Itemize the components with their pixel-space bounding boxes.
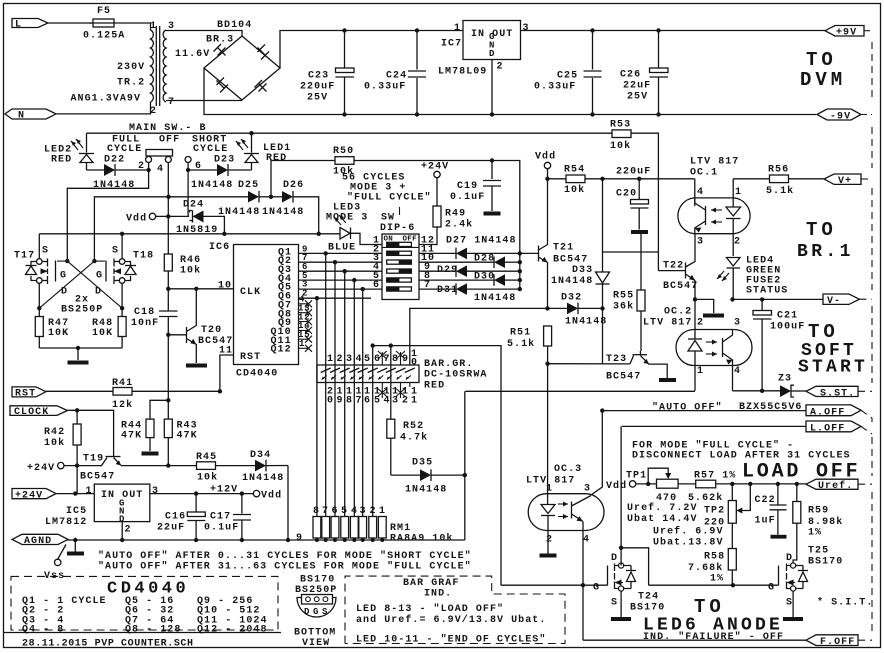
- svg-text:T22: T22: [663, 261, 684, 272]
- svg-text:C26: C26: [620, 70, 641, 81]
- transformer TR.2: [71, 21, 211, 117]
- svg-text:5.1k: 5.1k: [507, 338, 535, 350]
- svg-text:TO: TO: [806, 49, 837, 71]
- svg-text:OC.2: OC.2: [664, 307, 692, 318]
- wire T22 base feed: [603, 251, 659, 253]
- svg-text:C18: C18: [134, 307, 155, 318]
- svg-text:22uF: 22uF: [157, 523, 185, 534]
- diode D26 1N4148: [262, 180, 321, 236]
- package BS170 BS250P bottom view: [294, 575, 337, 650]
- svg-text:1N4148: 1N4148: [93, 180, 135, 191]
- svg-text:100uF: 100uF: [770, 322, 805, 333]
- diode D32 1N4148: [410, 293, 608, 328]
- svg-text:TO: TO: [806, 219, 837, 241]
- svg-text:F.OFF: F.OFF: [820, 637, 855, 648]
- resistor R44 47K: [121, 400, 168, 455]
- wire Vdd rail to T22 net: [602, 179, 604, 252]
- capacitor C17 0.1uF: [204, 491, 251, 542]
- resistor R54 10k: [545, 165, 695, 197]
- svg-text:2.4k: 2.4k: [445, 219, 473, 231]
- regulator IC7 LM78L09: [438, 21, 530, 78]
- svg-text:"FULL CYCLE": "FULL CYCLE": [347, 192, 432, 204]
- svg-text:BS170: BS170: [300, 575, 335, 586]
- wire F.OFF row: [583, 639, 806, 641]
- capacitor C20: [616, 177, 649, 234]
- transistor T19 BC547: [64, 454, 197, 483]
- svg-text:0.125A: 0.125A: [83, 31, 125, 42]
- trimmer TP2 220: [704, 482, 753, 529]
- flag F.OFF: [806, 635, 858, 648]
- ground bar Vss: [73, 538, 77, 542]
- svg-text:6: 6: [374, 354, 381, 365]
- wire R51 to OC3 pin1: [547, 364, 549, 496]
- svg-text:S: S: [786, 598, 793, 609]
- wire Q2 to DIP pin3: [299, 261, 383, 263]
- ground bar T24 source: [620, 591, 622, 617]
- wire D34 riser to ground rail: [287, 466, 289, 541]
- svg-text:10k: 10k: [333, 166, 354, 178]
- svg-text:R42: R42: [44, 427, 65, 438]
- diode D27 1N4148: [419, 236, 539, 260]
- svg-text:2: 2: [697, 318, 704, 329]
- svg-text:9: 9: [402, 354, 409, 365]
- svg-text:C20: C20: [616, 189, 637, 200]
- svg-text:BLUE: BLUE: [328, 243, 356, 254]
- svg-text:7.68k: 7.68k: [688, 562, 723, 574]
- svg-text:CD4040: CD4040: [236, 369, 278, 380]
- svg-text:5: 5: [374, 396, 381, 407]
- svg-text:CLOCK: CLOCK: [14, 407, 49, 418]
- wire fuse to transformer: [118, 23, 151, 30]
- terminal Vdd TP1: [606, 480, 636, 492]
- svg-text:2: 2: [402, 396, 409, 407]
- svg-text:5: 5: [341, 506, 348, 517]
- svg-text:6: 6: [364, 396, 371, 407]
- svg-text:1N4148: 1N4148: [242, 473, 284, 484]
- wire switch pin4 down: [167, 163, 169, 255]
- svg-text:47K: 47K: [177, 431, 198, 442]
- optocoupler OC.2 LTV817: [643, 307, 752, 391]
- svg-text:TR.2: TR.2: [117, 78, 145, 89]
- diode D33 1N4148: [551, 252, 610, 308]
- wire OC3 pin3 riser: [600, 408, 604, 412]
- wire Q4 to DIP pin5: [299, 279, 383, 281]
- svg-text:RED: RED: [424, 381, 445, 392]
- svg-text:BS170: BS170: [808, 557, 843, 568]
- svg-text:8.98k: 8.98k: [808, 516, 843, 528]
- flag +24V: [12, 489, 56, 502]
- svg-text:BS250P: BS250P: [61, 305, 103, 316]
- svg-text:0.1uF: 0.1uF: [450, 192, 485, 203]
- svg-text:25V: 25V: [627, 92, 648, 103]
- svg-text:CLK: CLK: [240, 287, 261, 298]
- transistor T23 BC547: [606, 351, 667, 383]
- ground bar T23 emitter: [659, 378, 676, 382]
- regulator IC5 LM7812: [45, 484, 159, 535]
- svg-text:1N4148: 1N4148: [405, 485, 447, 496]
- flag N: [5, 109, 56, 122]
- terminal Vdd circle T21: [535, 151, 556, 179]
- svg-text:IC7: IC7: [441, 39, 462, 50]
- svg-text:10k: 10k: [197, 472, 218, 484]
- wire bridge left corner to -9V rail: [204, 68, 816, 115]
- svg-text:OC.3: OC.3: [554, 464, 582, 475]
- svg-text:47K: 47K: [121, 431, 142, 442]
- IC6 CD4040 counter: [218, 245, 299, 380]
- wire col8 drop to R52: [390, 346, 392, 420]
- wire cross couple gate T18 to drain T17: [92, 259, 96, 263]
- fuse F5: [83, 6, 125, 42]
- svg-text:R56: R56: [768, 165, 789, 176]
- svg-text:1: 1: [454, 23, 461, 34]
- svg-text:D22: D22: [104, 155, 125, 166]
- diode D29: [419, 265, 520, 277]
- diode D23 1N4148: [186, 155, 252, 192]
- svg-text:R45: R45: [196, 452, 217, 463]
- svg-text:D: D: [786, 553, 793, 564]
- flag -9V: [817, 109, 861, 122]
- svg-text:BOTTOM: BOTTOM: [294, 628, 336, 639]
- bridge rectifier BR.3 BD104: [204, 20, 280, 100]
- wire Q2 drop to RM1 r6: [334, 262, 336, 516]
- resistor R46 10k: [164, 254, 201, 311]
- svg-text:6: 6: [332, 506, 339, 517]
- svg-text:C19: C19: [457, 181, 478, 192]
- svg-text:8: 8: [392, 354, 399, 365]
- svg-text:9: 9: [296, 533, 303, 544]
- svg-text:G: G: [96, 271, 103, 282]
- resistor R57 5.62k 1%: [688, 471, 806, 505]
- wire col10 riser to D32 row: [409, 308, 411, 365]
- svg-text:D28: D28: [474, 254, 495, 265]
- svg-text:R41: R41: [112, 378, 133, 389]
- resistor R59 8.98k 1%: [793, 482, 843, 566]
- svg-text:C24: C24: [386, 71, 407, 82]
- wire pin2 to latch gate: [67, 170, 148, 261]
- svg-text:D29: D29: [437, 265, 458, 276]
- terminal Vdd +12V: [210, 485, 282, 502]
- svg-text:LOAD OFF: LOAD OFF: [742, 461, 860, 484]
- svg-text:LED 8-13 - "LOAD OFF": LED 8-13 - "LOAD OFF": [356, 603, 504, 615]
- svg-text:D34: D34: [250, 450, 271, 461]
- transistor T21 BC547: [539, 179, 589, 309]
- svg-text:C25: C25: [557, 71, 578, 82]
- stub col9 bottom nc: [396, 383, 405, 399]
- svg-text:TO: TO: [808, 321, 839, 343]
- schottky diode D24 1N5819: [156, 200, 225, 237]
- svg-text:T17: T17: [14, 251, 35, 262]
- svg-text:3: 3: [392, 396, 399, 407]
- svg-text:10k: 10k: [610, 140, 631, 152]
- svg-text:G: G: [313, 607, 319, 617]
- svg-text:D23: D23: [214, 155, 235, 166]
- svg-text:T19: T19: [83, 454, 104, 465]
- svg-text:Ubat.13.8V: Ubat.13.8V: [653, 537, 724, 549]
- svg-text:2: 2: [302, 289, 308, 299]
- capacitor C21 100uF: [753, 299, 805, 390]
- svg-text:L.OFF: L.OFF: [810, 423, 845, 434]
- transistor T25 BS170: [768, 546, 843, 609]
- svg-text:BC547: BC547: [606, 372, 641, 383]
- svg-text:3: 3: [697, 237, 704, 248]
- svg-text:3: 3: [584, 484, 591, 495]
- resistor R58 7.68k 1%: [688, 523, 736, 585]
- svg-text:4: 4: [384, 396, 391, 407]
- capacitor C18 10nF: [131, 307, 178, 398]
- svg-text:S: S: [42, 246, 49, 257]
- svg-text:LTV 817: LTV 817: [643, 318, 692, 329]
- wire C18 to T20 base: [168, 334, 186, 336]
- svg-text:SW: SW: [381, 213, 395, 224]
- svg-text:G: G: [593, 583, 600, 594]
- dashed box BAR GRAF IND: [345, 576, 565, 643]
- flag CLOCK: [10, 406, 68, 418]
- LED1 RED: [236, 133, 291, 170]
- wire IC7 out to +9V flag: [521, 30, 826, 32]
- svg-text:R55: R55: [613, 291, 634, 302]
- wire transformer pin2 to N: [56, 102, 151, 114]
- wire source row Vdd net: [39, 233, 339, 235]
- svg-text:8: 8: [313, 506, 320, 517]
- wire transformer pin7 to bridge bottom: [166, 100, 242, 102]
- diode D28: [419, 254, 520, 269]
- diode D30: [419, 272, 520, 286]
- flag V-: [823, 294, 859, 307]
- flag RST: [12, 387, 46, 400]
- flag L: [12, 19, 48, 31]
- svg-text:10k: 10k: [180, 265, 201, 277]
- svg-text:Z3: Z3: [778, 374, 792, 385]
- svg-text:7: 7: [356, 396, 363, 407]
- svg-text:BZX55C5V6: BZX55C5V6: [739, 402, 802, 413]
- svg-text:1N4148: 1N4148: [551, 276, 593, 287]
- svg-text:R57 1%: R57 1%: [694, 471, 736, 482]
- svg-text:D: D: [611, 553, 618, 564]
- svg-text:3: 3: [523, 23, 530, 34]
- junction main line LED1: [249, 131, 253, 135]
- svg-text:36k: 36k: [613, 301, 634, 313]
- svg-text:12k: 12k: [112, 399, 133, 411]
- svg-text:3: 3: [734, 318, 741, 329]
- svg-text:V-: V-: [827, 296, 841, 307]
- title block separator: [4, 632, 282, 634]
- svg-text:S: S: [112, 246, 119, 257]
- wire IC5 out +12V row: [150, 493, 254, 495]
- svg-text:BC547: BC547: [553, 255, 588, 266]
- svg-text:Vdd: Vdd: [606, 480, 627, 492]
- svg-text:AGND: AGND: [24, 536, 52, 547]
- svg-text:RST: RST: [15, 388, 36, 399]
- svg-text:1: 1: [299, 339, 305, 349]
- switch SW main rotary: [138, 150, 202, 176]
- svg-text:+24V: +24V: [421, 162, 449, 173]
- transistor T24 BS170: [593, 553, 665, 614]
- svg-text:G: G: [768, 583, 775, 594]
- svg-text:+9V: +9V: [836, 28, 857, 39]
- svg-text:RM1: RM1: [390, 523, 411, 534]
- svg-text:S: S: [322, 607, 328, 617]
- wire T23 base row: [548, 363, 630, 365]
- wire R53 to T22 base: [658, 270, 685, 272]
- svg-text:N: N: [18, 111, 25, 122]
- flag A.OFF: [806, 405, 861, 418]
- svg-text:BD104: BD104: [217, 20, 252, 31]
- svg-text:START: START: [798, 358, 868, 378]
- svg-text:TP2: TP2: [704, 506, 725, 517]
- svg-text:R59: R59: [808, 506, 829, 517]
- svg-text:0.33uF: 0.33uF: [534, 82, 576, 93]
- resistor R50 10k: [333, 146, 492, 178]
- resistor network RM1 RA8A9 10k: [296, 506, 453, 545]
- svg-text:RED: RED: [266, 153, 287, 164]
- svg-text:1: 1: [150, 21, 157, 32]
- svg-text:R53: R53: [610, 120, 631, 131]
- transistor T17 BS250P: [14, 246, 68, 298]
- terminal +24V circle: [421, 162, 449, 178]
- diode D34 1N4148: [242, 450, 288, 484]
- junction dots -9V rail: [342, 112, 346, 116]
- svg-text:IND. "FAILURE" - OFF: IND. "FAILURE" - OFF: [643, 631, 784, 643]
- svg-text:C16: C16: [165, 512, 186, 523]
- svg-text:7: 7: [168, 97, 175, 108]
- flag V+: [824, 174, 861, 187]
- capacitor C25: [534, 31, 602, 115]
- svg-text:10K: 10K: [48, 328, 69, 339]
- svg-text:10k: 10k: [44, 437, 65, 449]
- IC6 RST pin stub: [220, 355, 234, 391]
- svg-text:7: 7: [384, 354, 391, 365]
- svg-text:OFF: OFF: [159, 135, 180, 146]
- svg-text:CYCLE: CYCLE: [107, 144, 142, 155]
- svg-text:R46: R46: [180, 255, 201, 266]
- wire Q1 drop to RM1 r7: [325, 253, 327, 516]
- optocoupler OC.1 LTV817: [678, 157, 750, 257]
- svg-text:TP1: TP1: [626, 471, 647, 482]
- wire D33 to T23 base: [600, 306, 604, 310]
- wire main switch B line: [87, 132, 613, 134]
- svg-text:LM7812: LM7812: [45, 517, 87, 528]
- capacitor C26: [620, 31, 668, 115]
- wire ground rail AGND: [60, 539, 465, 541]
- svg-text:Q4 - 8: Q4 - 8: [22, 625, 64, 636]
- svg-text:1%: 1%: [808, 528, 822, 539]
- svg-text:T24: T24: [638, 592, 659, 603]
- svg-text:10: 10: [218, 281, 232, 292]
- svg-text:+12V: +12V: [210, 485, 238, 496]
- svg-text:Q12: Q12: [271, 345, 292, 356]
- svg-text:D30: D30: [474, 272, 495, 283]
- ground bar T25 source: [792, 591, 794, 617]
- svg-text:D32: D32: [561, 293, 582, 304]
- svg-text:DC-10SRWA: DC-10SRWA: [424, 370, 487, 381]
- svg-text:7: 7: [322, 506, 329, 517]
- resistor R41 12k: [46, 378, 222, 411]
- svg-text:DIP-6: DIP-6: [380, 223, 415, 234]
- svg-text:* S.I.T.: * S.I.T.: [817, 597, 873, 609]
- wire L.OFF row: [622, 425, 806, 427]
- resistor R55 36k: [613, 234, 645, 352]
- svg-text:C23: C23: [308, 71, 329, 82]
- svg-text:2: 2: [337, 354, 344, 365]
- svg-text:D33: D33: [572, 265, 593, 276]
- svg-text:0.33uF: 0.33uF: [364, 82, 406, 93]
- svg-text:D31: D31: [437, 285, 458, 296]
- svg-text:10K: 10K: [92, 328, 113, 339]
- resistor R52 4.7k: [387, 419, 428, 475]
- wire T17 source riser: [38, 234, 40, 258]
- svg-text:IC5: IC5: [66, 506, 87, 517]
- svg-text:1uF: 1uF: [755, 516, 776, 527]
- resistor R47 10K: [35, 283, 69, 348]
- svg-text:1N4148: 1N4148: [262, 207, 304, 218]
- wire cross couple gate T17 to drain T18: [65, 259, 69, 263]
- junction clock node: [166, 287, 170, 291]
- svg-text:RA8A9 10k: RA8A9 10k: [390, 533, 453, 545]
- flag +9V: [825, 26, 864, 39]
- wire RM1 bottoms to ground rail: [317, 538, 382, 540]
- ground bar latch: [68, 361, 89, 365]
- resistor R53 10k: [610, 120, 658, 271]
- svg-text:0: 0: [327, 396, 334, 407]
- svg-text:BAR GRAF: BAR GRAF: [403, 578, 459, 589]
- svg-text:5.1k: 5.1k: [766, 185, 794, 197]
- svg-text:LTV 817: LTV 817: [690, 157, 739, 168]
- svg-text:Uref. 6.9V: Uref. 6.9V: [653, 526, 724, 538]
- svg-text:4: 4: [356, 354, 363, 365]
- svg-text:4: 4: [157, 164, 164, 175]
- terminal +24VO: [27, 462, 64, 473]
- LED2 RED: [44, 133, 94, 170]
- svg-text:BR.3: BR.3: [206, 35, 234, 46]
- svg-text:T20: T20: [201, 325, 222, 336]
- svg-text:Vdd: Vdd: [535, 151, 556, 163]
- svg-text:IND.: IND.: [424, 589, 452, 600]
- transistor T18 BS250P: [95, 246, 154, 298]
- wire Q4 drop to RM1 r4: [353, 280, 355, 516]
- svg-text:R58: R58: [704, 552, 725, 563]
- svg-text:2: 2: [734, 237, 741, 248]
- svg-text:LED 10-11 - "END OF CYCLES": LED 10-11 - "END OF CYCLES": [356, 634, 546, 646]
- svg-text:4.7k: 4.7k: [400, 432, 428, 444]
- svg-text:2: 2: [370, 506, 377, 517]
- svg-text:Uref. 7.2V: Uref. 7.2V: [627, 502, 698, 514]
- resistor R51 5.1k: [507, 326, 552, 366]
- svg-text:BR.1: BR.1: [797, 242, 854, 262]
- resistor R49 2.4k: [419, 178, 473, 245]
- svg-text:4: 4: [697, 187, 704, 198]
- wire A.OFF row: [602, 410, 806, 412]
- transistor T20 BC547: [187, 289, 234, 363]
- junction R54 D33: [600, 177, 604, 181]
- svg-text:1N4148: 1N4148: [474, 293, 516, 304]
- svg-text:220uF: 220uF: [300, 82, 335, 93]
- wire L to fuse: [48, 22, 93, 24]
- svg-text:T18: T18: [133, 251, 154, 262]
- svg-text:MAIN SW.- B: MAIN SW.- B: [129, 123, 207, 134]
- svg-text:D26: D26: [283, 180, 304, 191]
- stub col7 top nc: [378, 351, 387, 365]
- svg-text:D35: D35: [412, 458, 433, 469]
- ground bar T22 emitter: [695, 299, 714, 313]
- capacitor C22 1uF: [755, 482, 787, 539]
- table CD4040 dashed box: [11, 576, 278, 635]
- pin stubs Q7-Q12 no connect: [298, 295, 312, 352]
- wire Q3 drop to RM1 r5: [344, 271, 346, 516]
- wire Q1 to DIP pin2: [299, 252, 383, 254]
- svg-text:Q12 - 2048: Q12 - 2048: [197, 625, 268, 636]
- svg-text:"AUTO OFF" AFTER 0...31 CYCLES: "AUTO OFF" AFTER 0...31 CYCLES FOR MODE …: [98, 550, 472, 562]
- wire T24 gate rail: [501, 584, 608, 586]
